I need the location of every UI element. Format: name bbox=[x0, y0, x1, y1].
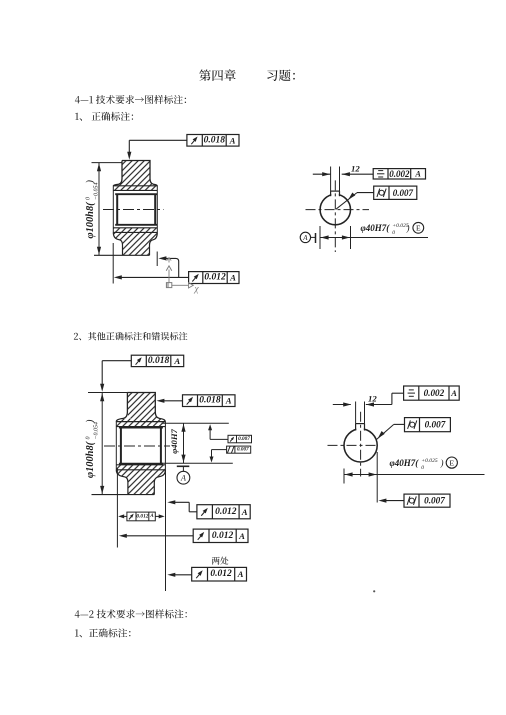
svg-text:0: 0 bbox=[421, 465, 424, 471]
modifier E circle fig1 bbox=[413, 222, 424, 233]
svg-text:−0.054: −0.054 bbox=[93, 182, 100, 200]
svg-text:A: A bbox=[237, 569, 244, 579]
svg-text:): ) bbox=[406, 223, 410, 233]
svg-text:0.007: 0.007 bbox=[425, 420, 446, 430]
phi40 extension left fig2 bbox=[343, 469, 345, 484]
feature frame 0.018 A fig2 hub bbox=[183, 395, 236, 407]
extension line right fig2 bottom bbox=[165, 470, 167, 591]
right face extension line fig1 bbox=[156, 252, 158, 267]
small frame 0.012 A fig2 bbox=[127, 512, 155, 521]
leader to top face fig1 bbox=[127, 140, 187, 159]
datum A symbol fig1 bbox=[300, 232, 315, 243]
phi40 top extension fig2 bbox=[162, 422, 229, 424]
dimension phi100h8 fig1 bbox=[85, 163, 122, 256]
phi40 dimension line fig2 bbox=[169, 423, 186, 463]
title text 第四章 bbox=[199, 69, 236, 81]
svg-text:E: E bbox=[449, 459, 454, 468]
leader cylindricity fig2 bottom bbox=[378, 499, 404, 503]
text phi40H7 fig2 bbox=[390, 458, 444, 471]
svg-text:0.007: 0.007 bbox=[393, 188, 414, 198]
heading 1、正确标注 bbox=[75, 112, 133, 121]
hole circle with keyway fig2 bbox=[344, 424, 377, 462]
feature frame 0.018 A fig2 top bbox=[131, 355, 183, 366]
leader frame b fig2 bbox=[119, 534, 193, 538]
modifier E circle fig2 bbox=[446, 457, 457, 468]
heading 4-2 技术要求→图样标注 bbox=[75, 609, 187, 618]
heading 1、正确标注 bottom bbox=[75, 628, 131, 637]
svg-text:0.012: 0.012 bbox=[212, 531, 234, 541]
part 2 top extension line bbox=[88, 392, 127, 394]
hole circle with keyway fig1 bbox=[320, 191, 350, 225]
svg-text:): ) bbox=[85, 180, 96, 185]
svg-text:): ) bbox=[440, 458, 444, 468]
part 2 hatching bbox=[116, 393, 165, 495]
datum A symbol fig2 bbox=[177, 466, 190, 484]
svg-text:φ100h8(: φ100h8( bbox=[85, 201, 96, 239]
svg-text:φ40H7(: φ40H7( bbox=[361, 223, 391, 233]
feature frame 0.018 A fig1 bbox=[187, 135, 239, 147]
dimension 12 fig1 bbox=[313, 164, 373, 177]
part 2 centerline bbox=[104, 445, 170, 447]
leader 0.018 down fig2 bbox=[100, 361, 131, 392]
svg-text:0: 0 bbox=[86, 437, 92, 440]
left face extension line fig1 bbox=[112, 243, 114, 284]
centerline horizontal fig1 hole bbox=[306, 209, 370, 211]
svg-text:A: A bbox=[241, 507, 248, 517]
small frame parallel 0.007 fig2 bbox=[227, 446, 251, 453]
feature frame cylindricity 0.007 fig2 bottom bbox=[404, 494, 450, 507]
svg-text:0.002: 0.002 bbox=[424, 388, 445, 398]
svg-text:A: A bbox=[173, 356, 180, 366]
phi40 extension right fig2 bbox=[376, 452, 378, 503]
leader frame c fig2 bbox=[167, 573, 191, 577]
centerline vertical fig1 hole bbox=[334, 180, 336, 252]
svg-text:A: A bbox=[229, 273, 236, 283]
phi40 dimension line fig1 bbox=[320, 235, 428, 239]
svg-text:0.018: 0.018 bbox=[199, 396, 221, 406]
phi40 extension lines fig1 bbox=[320, 226, 351, 249]
leader small frame 1 fig2 bbox=[208, 424, 228, 439]
part 1 outline (sectioned wheel) bbox=[94, 161, 157, 256]
svg-text:12: 12 bbox=[368, 394, 377, 404]
svg-text:0.018: 0.018 bbox=[148, 356, 170, 366]
part 1 centerline bbox=[103, 209, 164, 211]
feature frame 0.012 A fig2 b bbox=[193, 529, 248, 542]
svg-text:A: A bbox=[180, 474, 186, 483]
svg-text:φ40H7: φ40H7 bbox=[169, 428, 179, 453]
centerline horizontal fig2 hole bbox=[328, 444, 378, 446]
leader frame a fig2 bbox=[167, 500, 197, 512]
phi40 bottom extension fig2 bbox=[162, 462, 233, 464]
leader cylindricity fig2 top bbox=[377, 424, 405, 439]
arrows small frame 0.012 fig2 bbox=[118, 514, 165, 518]
small frame runout 0.007 fig2 bbox=[228, 435, 252, 443]
feature frame 0.012 A fig2 c bbox=[192, 567, 247, 581]
svg-text:0.007: 0.007 bbox=[424, 496, 445, 506]
feature frame cylindricity 0.007 fig2 top bbox=[405, 418, 451, 432]
svg-text:φ40H7(: φ40H7( bbox=[390, 458, 420, 468]
heading 4-1 技术要求→图样标注 bbox=[75, 95, 186, 104]
svg-text:+0.025: +0.025 bbox=[421, 458, 438, 464]
keyway extension lines fig2 bbox=[356, 402, 365, 424]
pencil datum annotation fig1 bbox=[166, 258, 199, 295]
feature frame cylindricity 0.007 fig1 bbox=[374, 186, 417, 199]
svg-text:A: A bbox=[450, 388, 457, 398]
leader 0.012 to left face fig1 bbox=[114, 275, 189, 279]
svg-text:A: A bbox=[238, 531, 245, 541]
heading 2、其他正确标注和错误标注 bbox=[74, 332, 187, 341]
extension line left fig2 bottom bbox=[116, 468, 118, 548]
text 两处 bbox=[212, 557, 229, 565]
svg-text:0: 0 bbox=[86, 197, 92, 200]
dimension phi100h8 fig2 bbox=[85, 393, 104, 495]
svg-text:0.002: 0.002 bbox=[389, 169, 410, 179]
svg-text:0.012: 0.012 bbox=[204, 273, 226, 283]
svg-text:12: 12 bbox=[351, 164, 360, 174]
svg-text:A: A bbox=[149, 514, 154, 519]
svg-text:−0.054: −0.054 bbox=[93, 422, 100, 440]
feature frame symmetry 0.002 A fig2 bbox=[404, 386, 460, 400]
svg-text:0.012: 0.012 bbox=[210, 569, 232, 579]
text phi40H7 fig1 bbox=[361, 223, 410, 236]
title text 习题： bbox=[267, 70, 295, 82]
svg-text:φ100h8(: φ100h8( bbox=[85, 440, 96, 478]
svg-text:0.018: 0.018 bbox=[204, 135, 226, 145]
feature frame 0.012 A fig1 bbox=[189, 272, 239, 284]
leader 0.018 hub fig2 bbox=[156, 399, 182, 403]
svg-text:A: A bbox=[414, 169, 421, 178]
svg-text:0.007: 0.007 bbox=[237, 447, 249, 453]
feature frame symmetry 0.002 A fig1 bbox=[373, 169, 425, 179]
svg-text:0.012: 0.012 bbox=[215, 507, 237, 517]
svg-text:0: 0 bbox=[392, 230, 395, 236]
leader cylindricity fig1 bbox=[336, 193, 374, 210]
feature frame 0.012 A fig2 a bbox=[197, 505, 250, 519]
svg-text:A: A bbox=[225, 396, 232, 406]
keyway extension lines fig1 bbox=[331, 167, 340, 192]
svg-text:): ) bbox=[85, 419, 96, 424]
centerline vertical fig2 hole bbox=[360, 412, 362, 477]
svg-text:A: A bbox=[229, 135, 236, 145]
svg-text:χ: χ bbox=[194, 285, 200, 295]
svg-text:0.012: 0.012 bbox=[136, 513, 148, 519]
phi40 dimension line fig2r bbox=[344, 472, 485, 476]
svg-text:0.007: 0.007 bbox=[238, 436, 250, 442]
part 2 outline (sectioned wheel) bbox=[92, 393, 166, 495]
part 1 hatching bbox=[113, 161, 157, 256]
leader small frame 2 fig2 bbox=[210, 450, 227, 463]
scan speck bbox=[373, 590, 375, 592]
dimension 12 fig2 bbox=[333, 393, 404, 406]
svg-text:E: E bbox=[416, 224, 421, 233]
svg-text:A: A bbox=[302, 234, 308, 242]
leader elbow to right face fig1 bbox=[158, 256, 178, 277]
